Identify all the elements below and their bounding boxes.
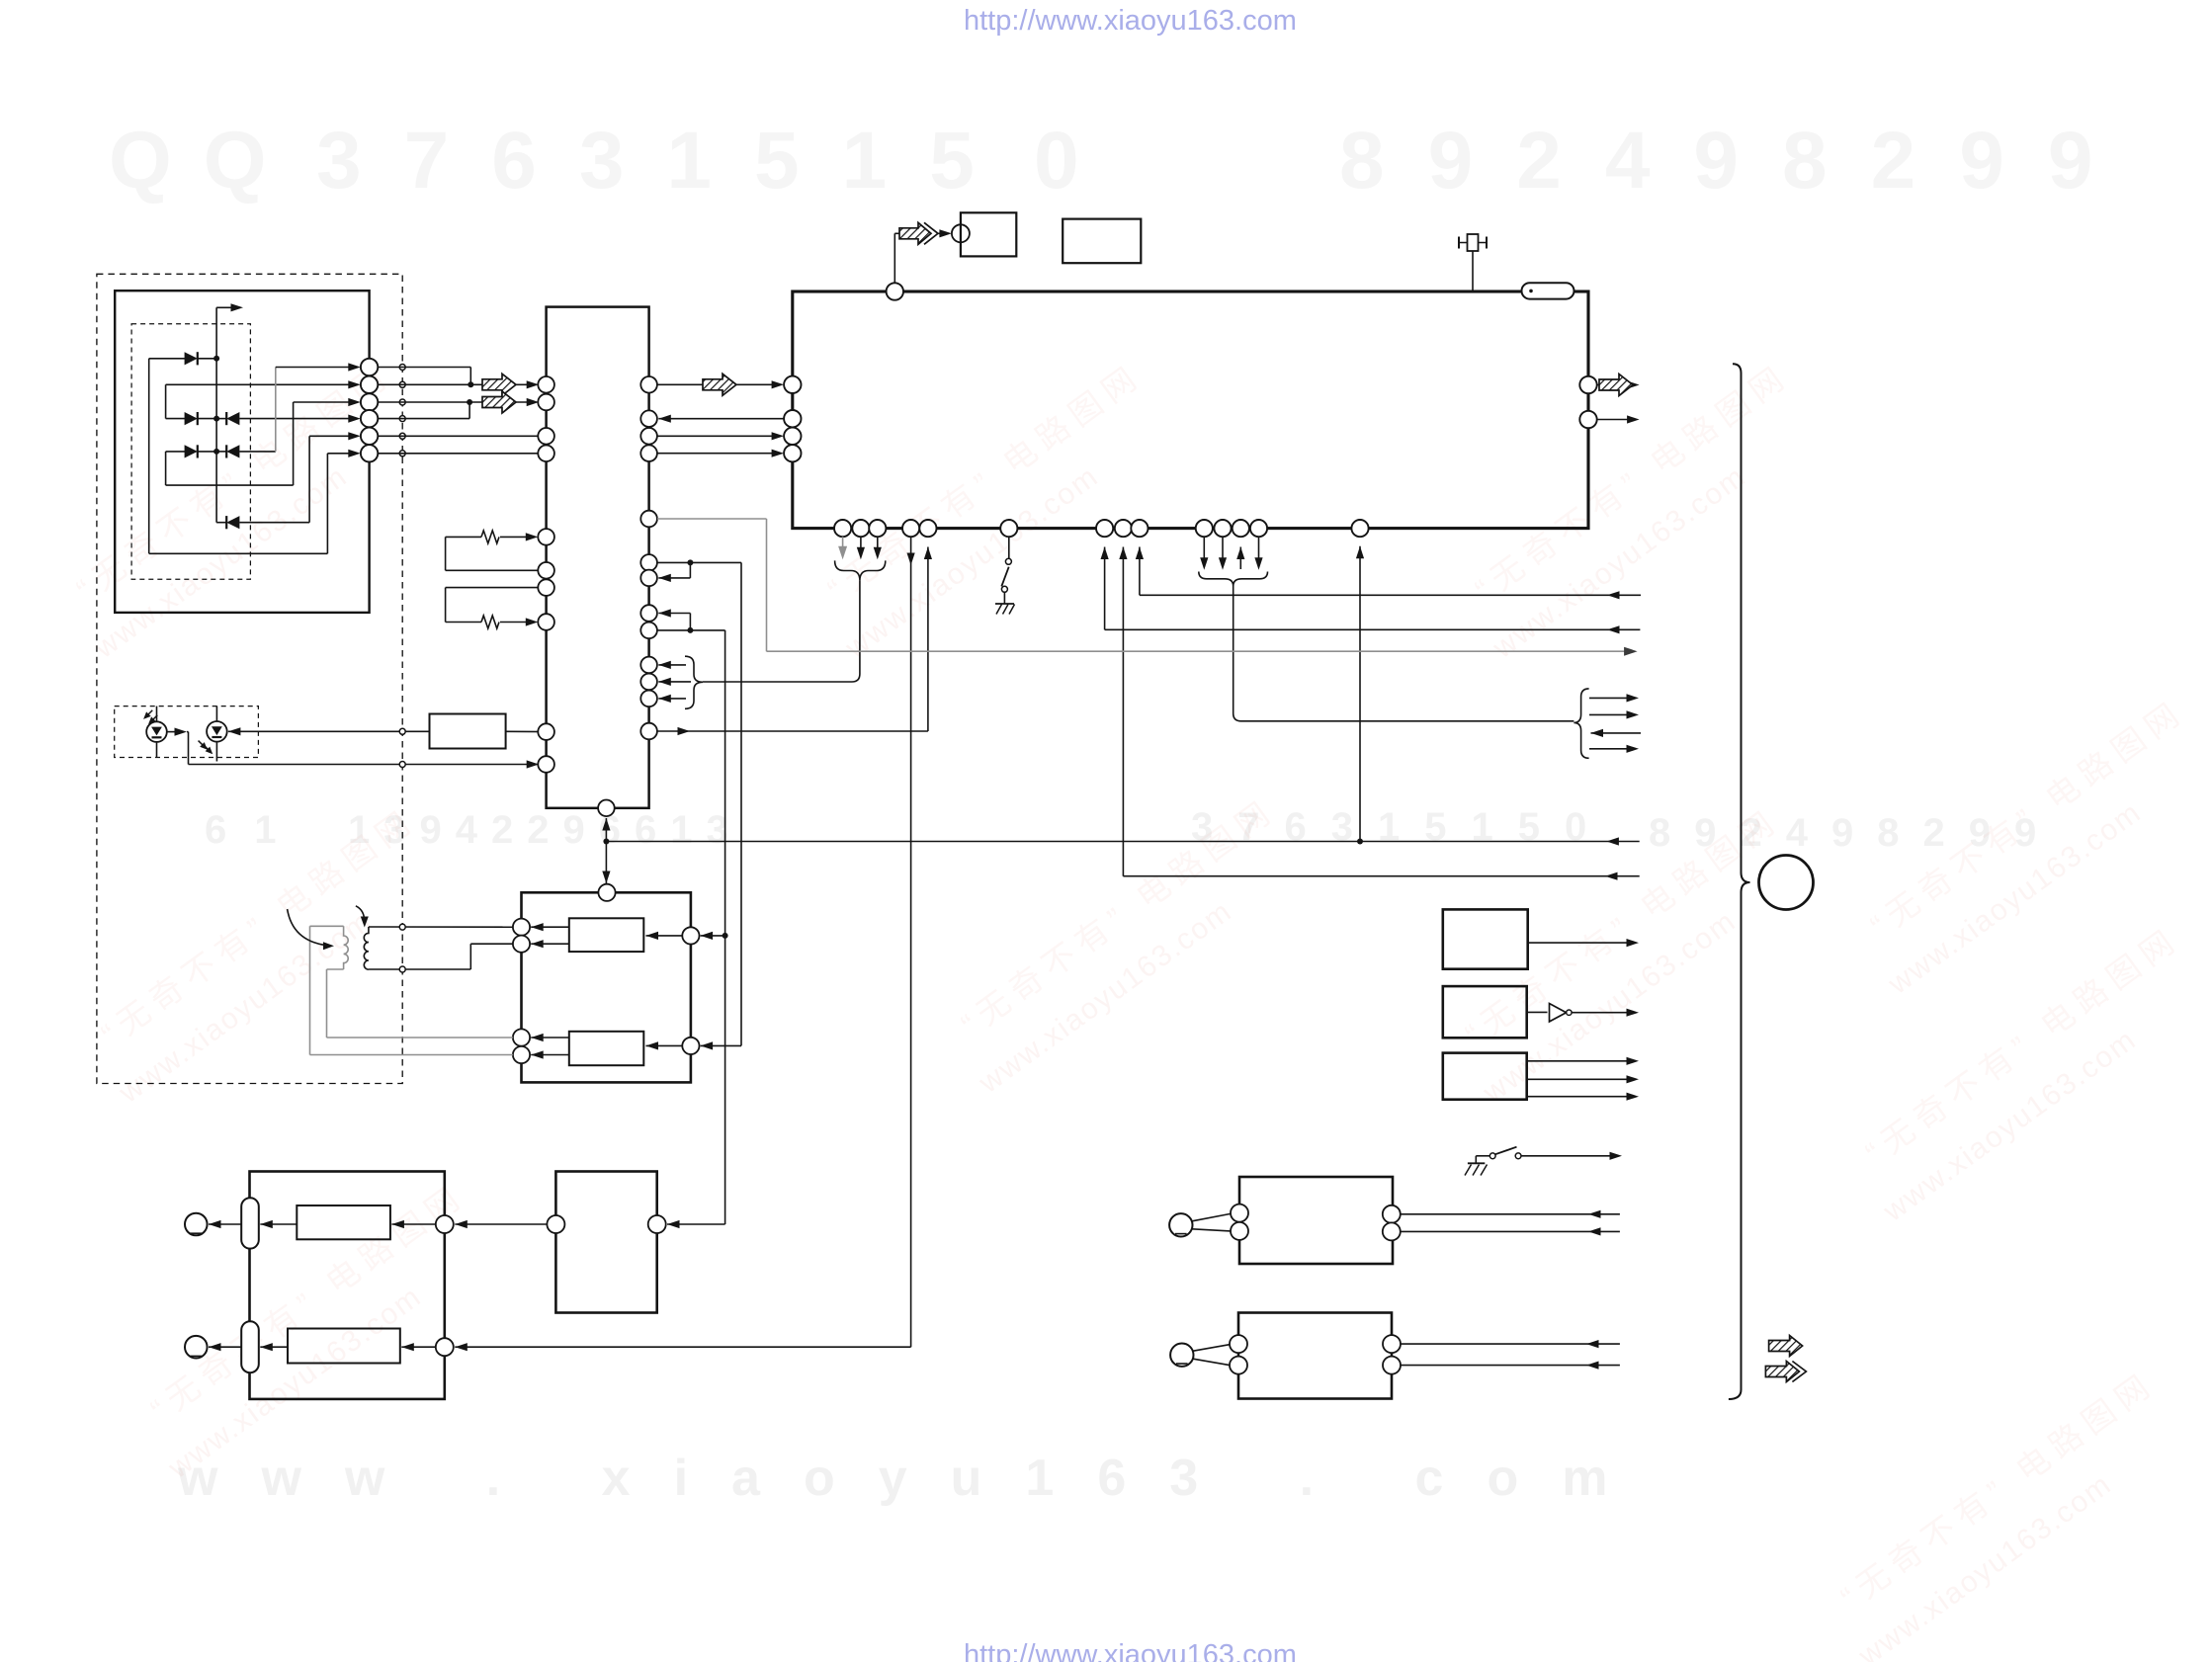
interface block box2	[1063, 219, 1141, 264]
U1 top pin	[887, 283, 903, 299]
crystal X1	[1459, 242, 1487, 244]
photodetector output pins A-F	[361, 359, 378, 375]
photodiode D5	[216, 451, 226, 453]
wire gray feedback vertical	[275, 368, 277, 452]
wire LED1 output	[167, 731, 181, 733]
ceramic resonator pill on supply trace	[1522, 283, 1574, 298]
U2 right pins	[640, 376, 657, 393]
watermark pink diagonal site marks	[53, 356, 431, 665]
U3 top pin	[598, 884, 615, 901]
emitting LED2	[215, 706, 217, 762]
EMI filter pill 2	[241, 1321, 259, 1372]
wire bottom return row	[149, 552, 328, 554]
wire photodiode common vertical bus	[215, 307, 217, 522]
svg-text:37631515: 37631515	[316, 116, 1017, 206]
adjust arrow short	[356, 906, 365, 921]
feedthrough point LED return	[399, 762, 405, 768]
connector reference circle	[1759, 856, 1814, 910]
wire L channel	[209, 1220, 221, 1228]
watermark top URL	[964, 5, 1297, 38]
display block box R1	[1443, 909, 1528, 968]
wire resistor to preamp pin	[506, 730, 547, 732]
wire U2 bottom to driver	[602, 818, 610, 831]
door switch SW2	[1476, 1155, 1489, 1157]
hatched arrow digital out	[899, 222, 931, 244]
photo transistor LED1	[156, 706, 158, 758]
junction dot bus row1	[213, 356, 219, 362]
photodiode D4	[185, 445, 198, 457]
wires R3 out	[1527, 1060, 1627, 1062]
wire gray monitor line (H3)	[657, 518, 767, 520]
limit switch SW1	[1005, 558, 1011, 564]
brace under group A	[835, 560, 886, 580]
servo error arrows into U2	[658, 661, 671, 669]
brace under group E	[1199, 572, 1268, 587]
RCA jack L	[185, 1213, 208, 1236]
wire data line 3 (H1)	[1136, 547, 1144, 560]
hatched arrow subcode out	[1599, 374, 1633, 396]
damping resistor block Ra	[569, 918, 644, 952]
feedback loop wire 1	[446, 536, 481, 538]
junction dot bus row4	[213, 449, 219, 455]
key block box R2	[1443, 986, 1527, 1038]
U3 left pins	[513, 919, 530, 936]
wire secondary top lead	[369, 926, 513, 928]
U5 side pins	[547, 1215, 564, 1233]
B2 right pins	[1383, 1335, 1401, 1353]
wire Ra input	[646, 932, 659, 940]
hatched arrow flex 2	[1765, 1362, 1799, 1382]
brace into U2 servo pins	[685, 656, 703, 708]
wire link rows 4-5	[165, 452, 167, 485]
resistor R-LED box	[430, 714, 506, 749]
wire sled switch	[1008, 537, 1010, 558]
wire secondary bottom lead	[369, 968, 470, 970]
hatched flex arrow RF 2	[482, 391, 516, 413]
svg-text:www . xiaoyu163 . com: www . xiaoyu163 . com	[177, 1450, 1651, 1507]
B2 left pins	[1230, 1335, 1247, 1353]
wire merged rows 3-4 to preamp	[378, 401, 484, 403]
wire data line 2 (Y2)	[1119, 547, 1127, 560]
wire row5 riser	[293, 402, 295, 485]
wire link rows 2-3	[165, 384, 167, 418]
wire reset line vertical	[1356, 546, 1364, 559]
ground GND1	[1003, 592, 1005, 604]
wire U1 right pin1 out	[1597, 384, 1600, 386]
actuator coil primary	[344, 926, 349, 969]
mute block box U5	[555, 1172, 656, 1313]
LED sensor dashed box	[115, 706, 259, 758]
wire U2 to U1 row4	[657, 453, 776, 455]
wire to pin F	[327, 453, 348, 455]
wire D6 row	[216, 522, 226, 524]
wire U1 top pin to SDA block	[893, 233, 895, 283]
U3 right pins	[682, 927, 699, 944]
wires B2 bus	[1586, 1340, 1599, 1348]
wires Rb to U3 left pins	[531, 1034, 544, 1041]
feedthrough point LED drive	[399, 728, 405, 734]
feedthrough secondary bottom	[399, 966, 405, 972]
wire left return vertical	[148, 359, 150, 554]
DSP-decoder IC U1	[793, 291, 1588, 529]
wire D6 riser	[308, 436, 310, 522]
connector plug P1	[1169, 1213, 1192, 1236]
junction dot reset on Y1	[1357, 839, 1363, 845]
wire row5	[166, 484, 294, 486]
photodetector solid box	[115, 291, 369, 613]
junction dot bus row3	[213, 416, 219, 422]
junction dot rows 3-4	[467, 399, 472, 405]
wire to pin C	[294, 401, 349, 403]
wire long line Y1	[606, 841, 1639, 843]
wire U1 to U2 row2	[658, 415, 671, 423]
deck connector block box B1	[1239, 1177, 1393, 1264]
wire R1 out	[1528, 942, 1627, 944]
feedthrough secondary top	[399, 924, 405, 930]
wire Rb input	[646, 1041, 659, 1049]
hatched flex arrow RF 1	[482, 374, 516, 395]
wire primary top lead	[310, 925, 344, 927]
wire bottom riser	[326, 454, 328, 554]
svg-text:0: 0	[1034, 116, 1079, 206]
line-out filter box U4	[250, 1172, 445, 1399]
photodiode array inner dashed box	[131, 324, 250, 580]
wire R channel	[209, 1343, 221, 1351]
hatched arrow flex 1	[1769, 1336, 1803, 1357]
wire focus coil drive vertical	[724, 630, 726, 1224]
wire spindle drive vertical	[740, 562, 742, 1045]
damping resistor block Rb	[569, 1032, 644, 1065]
U1 group E arrows	[1203, 537, 1205, 564]
wire row1 anode	[149, 358, 186, 360]
U4 right pins	[436, 1215, 454, 1233]
interface block box1	[961, 212, 1016, 256]
adjust arrow long	[288, 909, 326, 946]
U1 left pins	[784, 376, 801, 393]
U1 bottom pins	[834, 520, 851, 537]
flex cable feedthrough points	[399, 365, 405, 371]
wire R channel feed	[455, 1343, 468, 1351]
photodiode D3	[216, 418, 226, 420]
resistor R1 zigzag	[481, 531, 499, 543]
wire U4 to U5	[455, 1220, 468, 1228]
wire group E bus to connector brace	[1234, 586, 1574, 721]
wire row F to preamp	[378, 453, 538, 455]
B1 left pins	[1231, 1205, 1248, 1222]
hatched arrow RF to DSP	[703, 374, 736, 395]
wire U2 to U1 row3	[657, 435, 776, 437]
U2 left pins	[538, 376, 554, 393]
optical pickup outer dashed enclosure	[97, 274, 402, 1083]
wire row4 segment	[166, 451, 186, 453]
U1 group A arrows down	[842, 537, 844, 553]
wire focus drive down	[910, 537, 912, 1347]
wire LED2 drive	[228, 727, 241, 735]
connector plug P2	[1170, 1344, 1193, 1367]
ground GND2	[1475, 1156, 1477, 1164]
deck connector block box B2	[1238, 1313, 1392, 1399]
connector pin to box	[952, 224, 970, 242]
RCA jack R	[185, 1336, 208, 1359]
resistor R2 zigzag	[481, 616, 499, 628]
wire U2 pin9 junction	[658, 609, 671, 617]
brace connector fanout	[1574, 689, 1588, 758]
photodiode D1	[185, 352, 198, 365]
wire row2	[166, 383, 349, 385]
preamp-servo IC U2	[547, 307, 649, 808]
wire R2 to inverter	[1527, 1011, 1548, 1013]
motor driver IC U3 box	[522, 892, 691, 1082]
wires P2 to B2	[1193, 1345, 1230, 1352]
wire row E to preamp	[378, 435, 538, 437]
wire inverter out	[1572, 1012, 1627, 1014]
wire pin D jog up	[378, 418, 469, 420]
junction dot rows 1-2	[468, 381, 473, 387]
wire tracking return up	[924, 547, 932, 560]
inverter buffer	[1550, 1004, 1567, 1022]
wire primary bottom lead	[327, 968, 344, 970]
U1 right pins	[1579, 376, 1596, 393]
watermark bottom URL	[964, 1639, 1297, 1662]
B1 right pins	[1383, 1205, 1401, 1223]
arrow output at top of bus	[216, 306, 237, 308]
wire U2 pin6 junction	[657, 561, 741, 563]
resistor block L	[297, 1205, 390, 1239]
wire data line 1 (H2)	[1101, 547, 1109, 560]
sensor block box R3	[1443, 1053, 1527, 1100]
wire U2 to U1 row1 (RF)	[657, 383, 704, 385]
wire U3 right pin2 feed	[701, 1041, 714, 1049]
wire U5 right feed	[667, 1220, 680, 1228]
feedback loop wire 2	[446, 587, 539, 589]
svg-text:QQ: QQ	[109, 116, 298, 206]
wire row1 to pin A	[276, 367, 349, 369]
wire U1 right pin2 out	[1597, 419, 1631, 421]
wire row3 segment	[166, 418, 186, 420]
actuator coil secondary	[364, 927, 369, 969]
wire merged rows 1-2 to preamp	[378, 383, 484, 385]
page brace	[1729, 364, 1750, 1399]
svg-text:892498299: 892498299	[1339, 116, 2136, 206]
EMI filter pill 1	[241, 1198, 259, 1248]
U2 bottom pin	[598, 800, 615, 817]
resistor block R	[288, 1329, 400, 1364]
connector bus lines	[1589, 697, 1627, 699]
wire to pin E	[309, 435, 348, 437]
wires Ra to U3 left pins	[531, 923, 544, 931]
wire U3 right pin1 feed	[701, 932, 714, 940]
svg-text:61: 61	[205, 808, 304, 852]
wire group A bus to servo brace	[703, 581, 860, 682]
photodiode D6	[226, 516, 239, 529]
wire pin A jog down	[378, 367, 470, 369]
photodiode D2	[185, 412, 198, 425]
wires P1 to B1	[1192, 1213, 1231, 1220]
wires B1 bus	[1588, 1210, 1601, 1218]
